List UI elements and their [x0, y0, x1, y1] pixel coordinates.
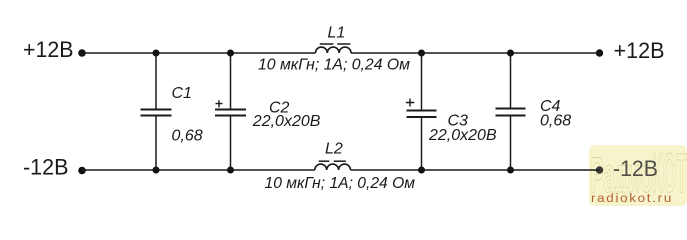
svg-text:22,0x20В: 22,0x20В	[428, 127, 497, 144]
junction node C3 top	[418, 50, 425, 57]
terminal dot +12V right	[596, 49, 603, 56]
C4 bottom lead wire	[510, 116, 512, 171]
L1 core dash 2	[337, 43, 350, 45]
wire top rail left segment	[82, 52, 316, 54]
junction node C4 bottom	[507, 167, 514, 174]
L1 core dash 1	[320, 43, 334, 45]
svg-text:-12В: -12В	[23, 155, 69, 180]
junction node C4 top	[507, 50, 514, 57]
C4 top plate	[496, 108, 526, 110]
wire bottom rail left segment	[82, 169, 315, 171]
svg-text:10 мкГн; 1А; 0,24 Ом: 10 мкГн; 1А; 0,24 Ом	[265, 175, 416, 192]
terminal dot -12V right	[596, 166, 603, 173]
C2 top plate	[215, 109, 246, 111]
C2 bottom plate	[215, 115, 246, 117]
C3 bottom plate	[407, 116, 437, 118]
C3 polarity plus sign	[406, 99, 415, 107]
C1 bottom lead wire	[155, 116, 157, 171]
C4 bottom plate	[496, 115, 526, 117]
C2 polarity plus sign	[216, 100, 223, 107]
junction node C1 top	[153, 50, 160, 57]
C3 top lead wire	[421, 53, 423, 111]
C3 bottom lead wire	[421, 117, 423, 170]
svg-text:L2: L2	[325, 141, 343, 158]
watermark radiokot.ru	[589, 141, 687, 206]
L2 core dash 2	[334, 160, 346, 162]
junction node C2 top	[227, 50, 234, 57]
junction node C2 bottom	[227, 167, 234, 174]
inductor L2	[265, 141, 416, 193]
capacitor C4	[496, 53, 572, 170]
svg-text:10 мкГн; 1А; 0,24 Ом: 10 мкГн; 1А; 0,24 Ом	[258, 57, 410, 74]
svg-text:22,0x20В: 22,0x20В	[252, 113, 321, 130]
junction node C1 bottom	[153, 167, 160, 174]
C1 top lead wire	[155, 53, 157, 110]
terminal dot +12V left	[78, 49, 86, 57]
C1 top plate	[141, 109, 172, 111]
svg-text:-12В: -12В	[613, 156, 658, 181]
C3 top plate	[407, 110, 437, 112]
svg-text:+12В: +12В	[614, 38, 665, 63]
C4 top lead wire	[510, 53, 512, 109]
terminal dot -12V left	[78, 167, 86, 175]
capacitor C3 (electrolytic)	[406, 53, 497, 170]
inductor L1	[258, 25, 410, 74]
svg-text:C1: C1	[172, 85, 192, 102]
svg-text:radiokot.ru: radiokot.ru	[591, 193, 673, 205]
junction node C3 bottom	[418, 167, 425, 174]
wire top rail right segment	[351, 52, 600, 54]
C2 bottom lead wire	[230, 116, 232, 171]
svg-text:L1: L1	[328, 25, 346, 42]
capacitor C2 (electrolytic)	[215, 53, 321, 170]
capacitor C1	[141, 53, 203, 170]
C1 bottom plate	[141, 115, 172, 117]
svg-text:+12В: +12В	[23, 37, 74, 62]
svg-text:0,68: 0,68	[172, 127, 203, 144]
wire bottom rail right segment	[351, 169, 600, 171]
C2 top lead wire	[230, 53, 232, 110]
svg-text:0,68: 0,68	[540, 113, 571, 130]
L2 core dash 1	[319, 160, 330, 162]
